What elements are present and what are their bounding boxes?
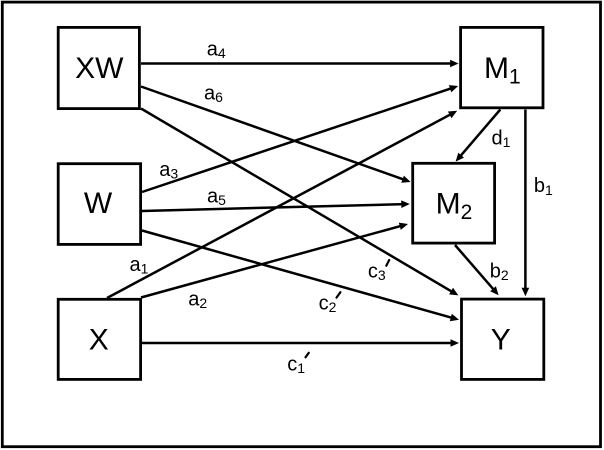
label a5 [207, 185, 226, 208]
label d1 [492, 128, 511, 151]
label c3prime [368, 260, 389, 283]
svg-text:XW: XW [75, 52, 124, 85]
arrow c3p XW to Y [141, 109, 458, 296]
node box M2 [413, 163, 495, 243]
svg-text:X: X [89, 323, 109, 356]
node box W [58, 164, 140, 245]
label c1prime [287, 353, 309, 376]
label a4 [207, 38, 226, 61]
arrow d1 M1 to M2 [456, 110, 501, 162]
svg-text:W: W [84, 187, 113, 220]
label a2 [188, 288, 207, 311]
node box X [58, 299, 140, 379]
label a1 [130, 254, 149, 277]
svg-text:Y: Y [491, 323, 511, 356]
arrow c2p W to Y [142, 231, 459, 322]
node box Y [462, 299, 544, 379]
label b2 [490, 261, 509, 284]
arrow a1 X to M1 [107, 111, 457, 298]
label c2prime [319, 292, 341, 315]
arrow a4 XW to M1 [141, 60, 459, 68]
node box M1 [461, 27, 543, 107]
arrow a5 W to M2 [142, 200, 410, 211]
arrow a2 X to M2 [141, 223, 408, 298]
arrow b2 M2 to Y [455, 245, 499, 295]
node box XW [58, 27, 139, 108]
arrow b1 M1 to Y [522, 110, 530, 297]
arrow a3 W to M1 [142, 85, 458, 192]
label b1 [534, 175, 553, 198]
arrow c1p X to Y [142, 339, 459, 347]
arrow a6 XW to M2 [141, 87, 411, 183]
label a3 [159, 159, 178, 182]
label a6 [204, 82, 223, 105]
